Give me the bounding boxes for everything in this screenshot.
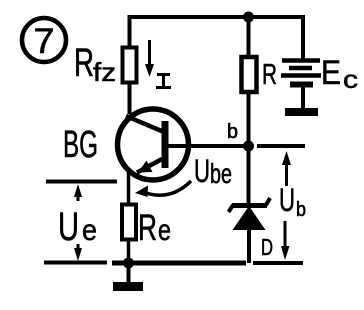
svg-text:R: R	[262, 59, 277, 91]
wire top right corner down to battery	[301, 15, 305, 59]
node junction bottom	[123, 258, 134, 269]
wire node b to zener	[247, 146, 251, 204]
measurement Ue up arrow	[74, 184, 82, 201]
svg-text:D: D	[261, 234, 273, 260]
node junction top (collector branch)	[243, 12, 254, 23]
wire top horizontal	[129, 15, 305, 19]
resistor R	[242, 57, 257, 92]
wire Rfz to transistor	[128, 82, 132, 114]
measurement Ub bottom bar	[253, 261, 303, 265]
label Ec	[321, 54, 358, 94]
curved arrow Ube	[135, 181, 191, 197]
svg-text:R: R	[74, 41, 94, 85]
svg-text:b: b	[296, 199, 306, 221]
node b	[243, 141, 254, 152]
svg-text:E: E	[321, 54, 341, 92]
battery Ec	[281, 61, 321, 110]
measurement Ue down arrow	[74, 244, 82, 261]
wire Re to bottom	[127, 239, 131, 263]
transistor BG	[118, 109, 189, 180]
svg-text:b: b	[227, 121, 238, 143]
svg-text:U: U	[58, 205, 79, 249]
label Ue	[58, 205, 97, 249]
wire emitter down to Re	[127, 171, 131, 205]
figure number 7 (circled)	[22, 18, 66, 62]
wire bottom horizontal	[112, 261, 246, 266]
svg-text:fz: fz	[93, 57, 116, 87]
measurement Ub up arrow	[282, 151, 291, 186]
label Re	[138, 207, 171, 248]
measurement Ue top bar	[46, 180, 117, 184]
label Rfz	[74, 41, 116, 87]
resistor Re	[122, 205, 136, 240]
label I	[156, 74, 171, 88]
resistor Rfz	[123, 48, 137, 83]
svg-text:R: R	[138, 207, 157, 248]
ground (below battery)	[285, 108, 318, 116]
svg-text:U: U	[194, 153, 210, 189]
current arrow I	[145, 40, 154, 77]
wire base to node b	[168, 144, 244, 148]
svg-text:BG: BG	[63, 124, 98, 166]
zener diode D	[229, 198, 271, 263]
svg-text:7: 7	[34, 22, 55, 61]
wire R to node b	[247, 92, 251, 146]
wire from top to Rfz	[128, 15, 132, 49]
measurement Ue bottom bar	[44, 261, 107, 265]
measurement Ub down arrow	[281, 221, 290, 260]
measurement Ub top bar	[257, 144, 305, 148]
svg-text:U: U	[279, 182, 295, 218]
ground (bottom left)	[113, 263, 143, 291]
svg-text:c: c	[343, 66, 358, 94]
label Ube	[194, 153, 232, 189]
wire top to R	[247, 15, 251, 58]
label Ub	[279, 182, 306, 221]
svg-text:e: e	[82, 214, 97, 247]
svg-text:be: be	[210, 158, 232, 189]
svg-text:e: e	[158, 214, 171, 247]
